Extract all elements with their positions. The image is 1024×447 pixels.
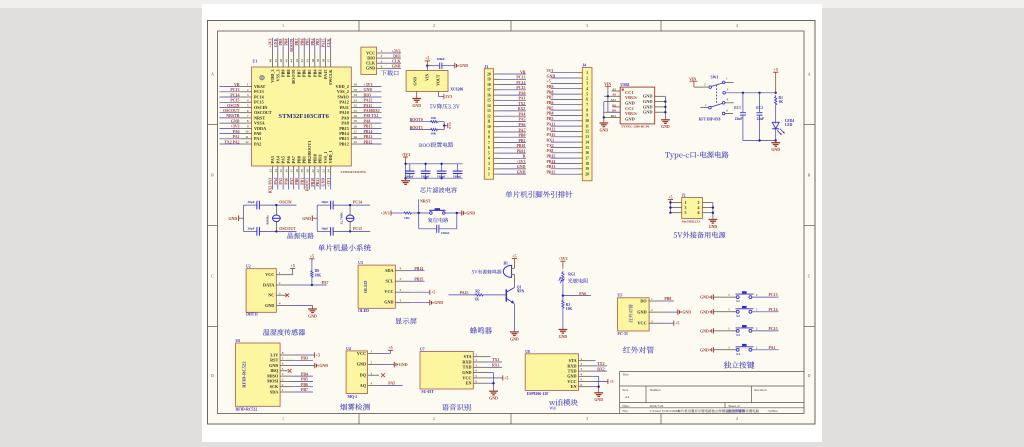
power GND crystal 2: [302, 215, 312, 221]
svg-text:GND: GND: [625, 101, 635, 106]
svg-text:GND: GND: [547, 74, 556, 78]
svg-text:PB6: PB6: [300, 39, 304, 46]
svg-text:13: 13: [585, 135, 589, 139]
svg-text:GND: GND: [625, 116, 635, 121]
svg-text:GND: GND: [643, 94, 653, 99]
svg-text:PB7: PB7: [547, 96, 554, 100]
U6 pin 6 wire: [280, 362, 314, 366]
capacitor C2 100nF: [405, 164, 415, 179]
wire crystal 1 left rail: [239, 205, 244, 231]
label title 5V step-down 3.3V: [430, 104, 460, 109]
svg-text:17: 17: [585, 156, 589, 160]
svg-text:PA2: PA2: [254, 141, 261, 146]
svg-text:5: 5: [488, 151, 490, 155]
J4 pin 6 wire PB7: [547, 96, 589, 102]
svg-text:OLED: OLED: [363, 281, 368, 293]
svg-text:26: 26: [354, 135, 358, 139]
svg-text:4: 4: [475, 369, 477, 373]
svg-text:4: 4: [381, 64, 383, 68]
capacitor C4 100nF: [437, 163, 447, 180]
svg-text:PB1: PB1: [302, 156, 307, 163]
U1 pin 34 SWIO wire: [337, 93, 381, 99]
power GND key S3: [700, 328, 713, 333]
svg-text:PB3: PB3: [318, 70, 323, 77]
svg-text:PB3: PB3: [547, 117, 554, 121]
U1 pin 39 PB3 wire: [316, 38, 323, 77]
resistor R1 1K: [775, 95, 784, 123]
svg-text:5: 5: [581, 378, 583, 382]
J2 pin 6 wire: [702, 212, 713, 214]
svg-text:C:\Users\ UO9123O9M: C:\Users\ UO9123O9M: [650, 409, 680, 413]
svg-text:LED: LED: [785, 123, 793, 127]
svg-text:+3V3: +3V3: [269, 39, 273, 48]
ground type-c rail: [771, 141, 780, 153]
svg-text:+5: +5: [609, 379, 613, 384]
label independent keys title: [724, 361, 755, 368]
svg-text:6: 6: [282, 362, 284, 366]
svg-text:3.3V: 3.3V: [270, 352, 278, 357]
svg-text:MQ-2: MQ-2: [348, 395, 358, 399]
svg-text:PA4: PA4: [519, 113, 526, 117]
capacitor 30pF bottom crystal 2: [317, 226, 350, 235]
svg-text:D: D: [808, 374, 811, 378]
svg-text:GND: GND: [599, 128, 608, 132]
svg-text:3: 3: [400, 277, 402, 281]
label 5V active buzzer: [472, 270, 502, 274]
svg-text:J3: J3: [484, 65, 488, 69]
power GND key S4: [700, 347, 713, 352]
svg-text:19: 19: [585, 167, 589, 171]
svg-text:TX2 PA2: TX2 PA2: [224, 140, 239, 144]
svg-text:TX1: TX1: [492, 358, 499, 362]
svg-text:.SchDoc: .SchDoc: [768, 409, 779, 413]
svg-text:GND: GND: [231, 119, 240, 123]
U1 pin 44 BOOT0 wire: [290, 38, 297, 84]
svg-text:22: 22: [316, 169, 320, 173]
svg-text:+3V3: +3V3: [392, 49, 401, 53]
svg-text:RX1: RX1: [492, 364, 500, 368]
svg-text:PC15: PC15: [769, 327, 778, 331]
svg-text:PB0: PB0: [296, 156, 301, 163]
module U5 FC-33: [618, 294, 650, 337]
svg-text:PB5: PB5: [301, 378, 308, 382]
svg-text:VSS_1: VSS_1: [323, 152, 328, 164]
power +5 above XC6206: [425, 56, 430, 66]
title block: [620, 371, 804, 413]
J3 pin 6 wire PB10: [488, 144, 526, 150]
svg-text:GND: GND: [637, 309, 646, 314]
svg-text:PA15: PA15: [460, 291, 469, 295]
svg-text:PA0: PA0: [519, 91, 526, 95]
J3 pin 17 wire PC15: [487, 86, 526, 92]
U1 pin 19 PB1 wire: [300, 156, 307, 189]
svg-text:VB: VB: [520, 70, 526, 74]
svg-text:PB6: PB6: [302, 70, 307, 77]
svg-text:PA7: PA7: [519, 128, 526, 132]
svg-text:10K: 10K: [431, 132, 437, 136]
J3 pin 3 wire +3V3: [488, 160, 526, 166]
svg-text:SU-03T: SU-03T: [421, 390, 434, 394]
svg-text:GND: GND: [643, 104, 653, 109]
svg-text:PA6: PA6: [285, 178, 289, 185]
svg-text:25: 25: [354, 140, 358, 144]
svg-text:CLK: CLK: [327, 39, 331, 47]
svg-text:34: 34: [354, 93, 358, 97]
svg-text:4: 4: [586, 87, 588, 91]
svg-text:R: R: [523, 155, 526, 159]
svg-text:10K: 10K: [566, 307, 573, 311]
svg-text:NPN: NPN: [517, 290, 525, 294]
svg-text:GND: GND: [319, 364, 328, 368]
U6 pin 1 wire: [280, 388, 313, 392]
svg-text:J2: J2: [682, 193, 686, 197]
U2 pin 2 DATA wire: [276, 281, 326, 286]
svg-text:U7: U7: [420, 348, 425, 352]
diode LED4: [772, 119, 794, 141]
svg-text:PC13: PC13: [769, 293, 778, 297]
J2 pin 2 wire: [702, 202, 713, 204]
svg-text:CLK: CLK: [392, 60, 400, 64]
svg-text:4: 4: [581, 372, 583, 376]
U1 pin 40 PB4 wire: [311, 38, 318, 77]
power +5 MQ-2: [388, 345, 393, 350]
svg-text:12: 12: [245, 140, 249, 144]
svg-text:16: 16: [284, 169, 288, 173]
svg-text:+3V3: +3V3: [231, 125, 240, 129]
U8 pin 6 wire: [579, 383, 599, 387]
svg-text:GND: GND: [274, 38, 278, 47]
J2 pin 1 wire: [670, 202, 681, 204]
svg-text:2: 2: [581, 362, 583, 366]
svg-text:PA8: PA8: [547, 149, 554, 153]
svg-text:+5: +5: [675, 321, 679, 326]
wire SW1 pin4: [725, 102, 734, 104]
svg-text:1: 1: [581, 357, 583, 361]
U1 pin 14 PA4 wire: [274, 155, 281, 189]
svg-text:PB7: PB7: [296, 70, 301, 77]
svg-text:GND: GND: [559, 335, 568, 339]
svg-text:PB4: PB4: [311, 39, 315, 46]
svg-text:5: 5: [586, 92, 588, 96]
svg-text:STM32F103C8T6: STM32F103C8T6: [341, 170, 367, 174]
svg-text:PA5: PA5: [279, 178, 283, 185]
svg-text:PA13: PA13: [547, 122, 556, 126]
svg-text:1: 1: [586, 71, 588, 75]
capacitor C3 100nF: [421, 163, 431, 180]
svg-text:5: 5: [685, 210, 687, 215]
U1 pin 13 PA3 wire: [269, 156, 276, 193]
U1 pin 30 PA9 wire: [341, 114, 381, 120]
U3 pin 1 GND wire: [395, 299, 429, 303]
U2 pin 3 NC wire: [276, 291, 289, 297]
svg-text:14: 14: [487, 104, 491, 108]
regulator U9 XC6206: [406, 70, 463, 91]
U1 pin 32 PA11 wire: [340, 104, 382, 110]
J4 pin 18 wire PB14: [547, 160, 590, 166]
svg-text:27: 27: [354, 130, 358, 134]
svg-text:NC: NC: [268, 293, 274, 298]
net label PC15: [350, 227, 370, 231]
power GND OLED: [430, 300, 443, 305]
svg-text:9: 9: [247, 125, 249, 129]
svg-text:GND: GND: [700, 348, 709, 352]
svg-text:20: 20: [306, 169, 310, 173]
svg-text:38: 38: [321, 59, 325, 63]
button S4: [713, 344, 757, 356]
U1 pin 35 VSS_2 wire: [337, 88, 382, 94]
svg-text:PA10RX1: PA10RX1: [364, 109, 380, 113]
svg-text:BOOT1: BOOT1: [306, 178, 310, 191]
U1 pin 10 PA0 wire: [220, 130, 262, 136]
label Type-c power circuit title: [665, 151, 728, 159]
J4 pin 17 wire PB15: [547, 154, 590, 160]
svg-text:PA15: PA15: [322, 39, 326, 48]
svg-text:1: 1: [282, 388, 284, 392]
svg-text:PB15: PB15: [414, 277, 423, 281]
svg-text:Wifi: Wifi: [550, 406, 557, 410]
svg-text:12: 12: [487, 115, 491, 119]
svg-text:8MHz: 8MHz: [266, 215, 270, 225]
svg-text:CC2: CC2: [625, 106, 634, 111]
svg-text:14: 14: [585, 140, 589, 144]
svg-text:2: 2: [282, 383, 284, 387]
svg-text:ESP8266-12F: ESP8266-12F: [527, 392, 550, 396]
svg-text:4: 4: [370, 382, 372, 386]
U5 pin 1 DO wire: [649, 297, 674, 301]
svg-text:15: 15: [585, 146, 589, 150]
svg-text:+3V3: +3V3: [364, 83, 373, 87]
svg-text:2: 2: [756, 346, 758, 350]
svg-text:3: 3: [651, 319, 653, 323]
svg-text:OSCIN: OSCIN: [279, 201, 292, 205]
U1 pin 33 PA12 wire: [339, 98, 381, 104]
svg-text:5: 5: [247, 104, 249, 108]
label wifi module title: [549, 399, 578, 410]
svg-text:U5: U5: [618, 294, 623, 298]
svg-text:GND: GND: [384, 300, 393, 305]
svg-text:GND: GND: [302, 217, 311, 221]
U6 pin 8 wire: [280, 351, 314, 355]
label buzzer title: [470, 327, 492, 334]
svg-text:AQ: AQ: [360, 383, 367, 388]
capacitor 100nF at XC6206: [437, 57, 446, 69]
svg-text:47: 47: [274, 59, 278, 63]
svg-text:10K: 10K: [315, 273, 322, 277]
svg-text:12: 12: [585, 130, 589, 134]
svg-text:DQ: DQ: [360, 372, 367, 377]
wire SW1 pin5: [700, 107, 708, 109]
wire J2 right rail: [712, 203, 714, 219]
J4 pin 11 wire PA13: [547, 122, 589, 128]
J3 pin 18 wire PC14: [487, 81, 526, 87]
button S3: [713, 325, 757, 337]
J4 pin 13 wire PA11: [547, 133, 590, 139]
svg-text:PB15: PB15: [547, 154, 556, 158]
P1 pin 2 wire DIO: [377, 54, 401, 58]
svg-text:PB11: PB11: [316, 178, 320, 187]
svg-text:PC14: PC14: [230, 93, 239, 97]
label reset circuit title: [428, 218, 448, 223]
U1 pin 38 PA15 wire: [321, 38, 328, 79]
U1 pin 22 PB11 wire: [316, 154, 323, 189]
svg-text:STM32F103C8T6: STM32F103C8T6: [278, 113, 329, 120]
power GND MQ-2: [394, 362, 407, 367]
svg-text:2: 2: [586, 76, 588, 80]
svg-text:4: 4: [282, 372, 284, 376]
svg-text:2024/7/24: 2024/7/24: [650, 404, 664, 408]
svg-text:PB11: PB11: [318, 154, 323, 163]
svg-text:43: 43: [295, 59, 299, 63]
svg-text:A: A: [211, 73, 214, 77]
svg-text:VB: VB: [234, 83, 240, 87]
svg-text:PB12: PB12: [547, 171, 556, 175]
svg-text:14: 14: [274, 169, 278, 173]
svg-text:SDA: SDA: [385, 268, 393, 273]
net label BOOT0: [410, 118, 430, 122]
U1 pin 1 VBAT wire: [220, 83, 266, 89]
J4 pin 4 wire PB9: [547, 85, 589, 91]
svg-text:8: 8: [586, 108, 588, 112]
capacitor 30pF top crystal 1: [244, 200, 277, 209]
net label PA6: [579, 292, 586, 296]
label crystal circuit title: [288, 232, 314, 238]
svg-text:SWCLK: SWCLK: [328, 69, 333, 85]
svg-text:PA3: PA3: [270, 156, 275, 163]
J4 pin 1 wire 3V3: [547, 69, 589, 75]
svg-text:2: 2: [247, 88, 249, 92]
power 3V3 label: [444, 94, 452, 99]
sensor U4 MQ-2: [346, 347, 367, 399]
svg-text:+5: +5: [388, 345, 392, 350]
svg-text:PC15: PC15: [353, 227, 362, 231]
svg-text:GND: GND: [322, 178, 326, 187]
J3 pin 14 wire TX2: [487, 102, 526, 108]
svg-text:31: 31: [354, 109, 358, 113]
label MCU pin header title: [505, 191, 572, 198]
svg-text:3: 3: [488, 162, 490, 166]
svg-text:GND: GND: [229, 217, 238, 221]
label voice recognition title: [442, 404, 471, 411]
svg-text:MISO: MISO: [267, 373, 279, 378]
svg-text:SW1: SW1: [711, 76, 719, 80]
ground photoresistor: [559, 329, 568, 339]
op-amp U1 STM32F103C8T6 MCU body: [252, 59, 367, 173]
U7 pin 5 wire: [473, 374, 502, 378]
J3 pin 13 wire RX2: [487, 107, 526, 113]
svg-text:KFT DIP-8X8: KFT DIP-8X8: [699, 117, 721, 121]
svg-text:PB10: PB10: [517, 144, 526, 148]
wire VIN to VBUS pins: [607, 90, 621, 113]
label display title: [395, 318, 417, 325]
USB1 pin A9 wire: [604, 93, 620, 97]
svg-text:2: 2: [651, 308, 653, 312]
svg-text:PB4: PB4: [301, 372, 308, 376]
svg-text:J4: J4: [582, 63, 586, 67]
svg-text:GND: GND: [265, 303, 274, 308]
svg-text:MOSI: MOSI: [267, 379, 279, 384]
svg-text:VCC: VCC: [462, 375, 471, 380]
U1 pin 2 PC13 wire: [220, 88, 264, 94]
J3 pin 5 wire PB11: [488, 149, 526, 155]
svg-text:PB7: PB7: [295, 39, 299, 46]
svg-text:PA7: PA7: [322, 281, 329, 285]
J3 pin 20 wire VB: [487, 70, 526, 76]
svg-text:GND: GND: [594, 398, 603, 402]
resistor R? 10K reset: [403, 212, 430, 220]
J3 pin 8 wire PB0: [488, 134, 526, 140]
wire key S2 to PC14: [752, 308, 779, 312]
power +5 DHT11: [290, 263, 295, 268]
svg-text:Title: Title: [622, 373, 629, 377]
svg-text:NRST: NRST: [420, 199, 431, 203]
power +5 at rail: [773, 67, 778, 93]
ground buzzer: [510, 331, 519, 342]
svg-text:1: 1: [381, 49, 383, 53]
svg-text:1K: 1K: [779, 100, 784, 104]
J4 pin 14 wire RX1: [547, 138, 590, 144]
svg-text:39: 39: [316, 59, 320, 63]
svg-text:PB5: PB5: [547, 106, 554, 110]
U8 pin 4 wire: [579, 372, 599, 376]
svg-text:8: 8: [488, 136, 490, 140]
svg-text:PC13: PC13: [516, 76, 525, 80]
svg-text:GND: GND: [364, 88, 373, 92]
svg-text:+3V3: +3V3: [558, 256, 567, 261]
P1 pin 1 wire +3V3: [377, 49, 401, 53]
svg-text:Pin HDR2X3: Pin HDR2X3: [682, 220, 701, 224]
wire SW1 pin6: [725, 113, 733, 115]
power +3V3 reset: [381, 210, 403, 215]
svg-text:30: 30: [354, 114, 358, 118]
wire +5 rail from SW1 pin3: [725, 92, 777, 94]
J4 pin 2 wire GND: [547, 74, 589, 80]
resistor R3 10K: [562, 299, 573, 329]
svg-text:45: 45: [284, 59, 288, 63]
svg-text:PB12: PB12: [339, 141, 349, 146]
wire filter cap bottom bus: [404, 177, 462, 179]
svg-text:PB2/BOOT1: PB2/BOOT1: [307, 141, 312, 164]
svg-text:PC14: PC14: [254, 94, 265, 99]
svg-text:RX2: RX2: [597, 367, 605, 371]
net label OSCIN: [276, 201, 296, 206]
svg-text:PA5: PA5: [388, 382, 395, 386]
svg-text:36: 36: [354, 83, 358, 87]
svg-text:3: 3: [381, 59, 383, 63]
svg-text:GND: GND: [366, 66, 375, 71]
svg-text:D: D: [449, 127, 451, 130]
U6 pin 4 wire: [280, 372, 313, 376]
svg-text:2: 2: [433, 417, 435, 421]
svg-text:GND: GND: [489, 397, 498, 401]
U1 pin 12 PA2 wire: [220, 140, 262, 146]
svg-text:22uF: 22uF: [735, 117, 744, 121]
J3 pin 11 wire PA5: [487, 118, 526, 124]
power GND BOOT: [448, 122, 451, 130]
J4 pin 12 wire PA12: [547, 128, 590, 134]
svg-text:PA6: PA6: [519, 123, 526, 127]
USB1 pin A5 wire: [612, 87, 621, 91]
svg-text:VSS_3: VSS_3: [275, 70, 280, 82]
button S1: [713, 291, 757, 303]
svg-text:Date:: Date:: [622, 404, 629, 408]
svg-text:7: 7: [247, 114, 249, 118]
U1 pin 8 VSSA wire: [220, 119, 265, 125]
svg-text:6: 6: [488, 146, 490, 150]
connector J2 Pin HDR2X3: [682, 193, 703, 223]
svg-text:B1: B1: [504, 262, 509, 266]
J3 pin 2 wire GND: [488, 165, 526, 171]
svg-text:SDA: SDA: [270, 389, 278, 394]
